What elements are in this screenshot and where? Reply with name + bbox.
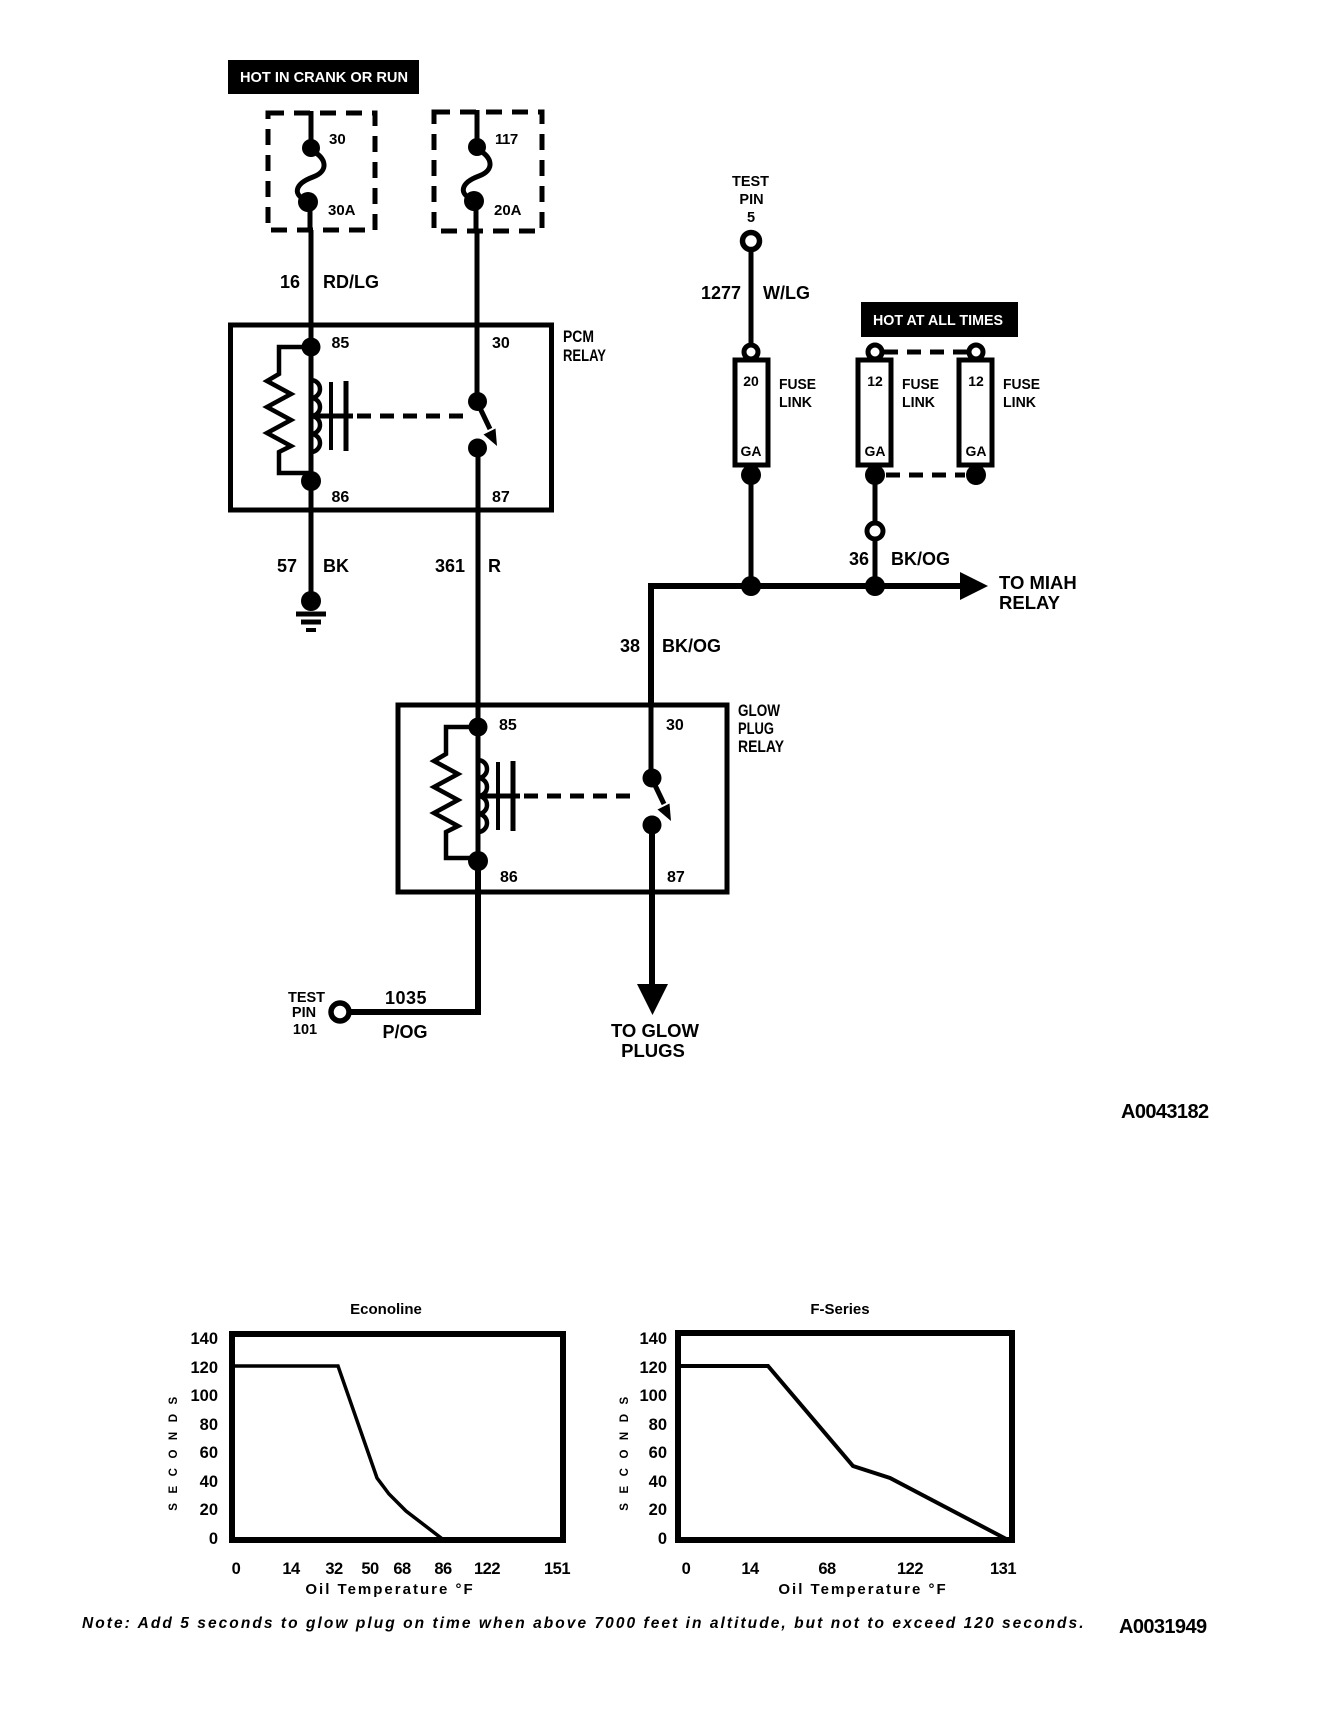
svg-text:101: 101 bbox=[293, 1022, 317, 1038]
svg-text:TEST: TEST bbox=[288, 990, 325, 1006]
svg-text:30A: 30A bbox=[328, 202, 356, 219]
svg-text:1277: 1277 bbox=[701, 283, 741, 303]
fuse link FL1 20GA bbox=[735, 345, 768, 485]
actuator link solid segment (K1) bbox=[311, 414, 353, 419]
svg-text:5: 5 bbox=[747, 210, 755, 226]
svg-text:LINK: LINK bbox=[902, 394, 935, 411]
relay K1 name label PCM RELAY bbox=[563, 327, 607, 365]
svg-text:16: 16 bbox=[280, 272, 300, 292]
svg-text:140: 140 bbox=[190, 1330, 218, 1348]
svg-text:R: R bbox=[488, 556, 501, 576]
svg-text:FUSE: FUSE bbox=[779, 376, 816, 393]
switch blade with arrowhead (K2) bbox=[653, 781, 671, 821]
svg-text:80: 80 bbox=[649, 1416, 667, 1434]
svg-text:40: 40 bbox=[200, 1473, 218, 1491]
svg-text:GA: GA bbox=[865, 443, 886, 459]
svg-text:20: 20 bbox=[200, 1501, 218, 1519]
core plates (K1) bbox=[331, 381, 346, 451]
chart Econoline x-axis labels bbox=[232, 1560, 571, 1578]
svg-text:151: 151 bbox=[544, 1560, 570, 1578]
node TEST PIN 5 terminal bbox=[743, 233, 760, 250]
svg-text:0: 0 bbox=[682, 1560, 691, 1578]
svg-text:RD/LG: RD/LG bbox=[323, 272, 379, 292]
chart F-Series plot frame bbox=[678, 1333, 1012, 1540]
svg-text:30: 30 bbox=[666, 717, 684, 734]
svg-text:85: 85 bbox=[332, 335, 350, 352]
svg-text:PCM: PCM bbox=[563, 327, 594, 346]
label TO MIAH RELAY bbox=[999, 572, 1077, 613]
svg-text:120: 120 bbox=[190, 1359, 218, 1377]
svg-text:W/LG: W/LG bbox=[763, 283, 810, 303]
svg-text:100: 100 bbox=[190, 1387, 218, 1405]
svg-text:57: 57 bbox=[277, 556, 297, 576]
fuse F1 box (dashed) bbox=[268, 113, 375, 230]
fuse F2 box (dashed) bbox=[434, 112, 542, 231]
svg-text:FUSE: FUSE bbox=[1003, 376, 1040, 393]
svg-text:F-Series: F-Series bbox=[810, 1301, 869, 1318]
svg-text:BK/OG: BK/OG bbox=[662, 636, 721, 656]
fuse link FL3 12GA bbox=[959, 345, 992, 485]
wire FL1 bottom to bus bbox=[749, 466, 754, 586]
switch contact node 30 (K2) bbox=[643, 769, 662, 788]
svg-text:140: 140 bbox=[639, 1330, 667, 1348]
svg-text:SECONDS: SECONDS bbox=[619, 1387, 631, 1510]
svg-text:BK/OG: BK/OG bbox=[891, 549, 950, 569]
label 38 BK/OG bbox=[620, 636, 721, 656]
arrowhead TO GLOW PLUGS bbox=[637, 984, 668, 1015]
svg-text:60: 60 bbox=[649, 1444, 667, 1462]
svg-text:TO MIAH: TO MIAH bbox=[999, 572, 1077, 593]
svg-text:LINK: LINK bbox=[779, 394, 812, 411]
relay K2 name label GLOW PLUG RELAY bbox=[738, 701, 785, 756]
svg-text:60: 60 bbox=[200, 1444, 218, 1462]
wire circuit 57 BK (K1 pin 86 to ground) bbox=[309, 481, 314, 598]
chart Econoline y-axis labels bbox=[190, 1330, 218, 1548]
svg-text:80: 80 bbox=[200, 1416, 218, 1434]
svg-text:HOT AT ALL TIMES: HOT AT ALL TIMES bbox=[873, 312, 1003, 329]
chart F-Series x-axis labels bbox=[682, 1560, 1017, 1578]
resistor R1 (K1 coil shunt) bbox=[267, 347, 311, 473]
arrowhead TO MIAH RELAY bbox=[960, 572, 988, 600]
svg-text:A0031949: A0031949 bbox=[1119, 1616, 1207, 1638]
svg-text:PLUGS: PLUGS bbox=[621, 1040, 685, 1061]
svg-text:Oil Temperature °F: Oil Temperature °F bbox=[778, 1581, 947, 1598]
svg-text:86: 86 bbox=[332, 489, 350, 506]
svg-text:BK: BK bbox=[323, 556, 349, 576]
chart Econoline plot frame bbox=[232, 1334, 563, 1540]
header banner HOT AT ALL TIMES bbox=[861, 302, 1018, 337]
svg-text:86: 86 bbox=[500, 869, 518, 886]
label 36 BK/OG bbox=[849, 549, 950, 569]
svg-text:131: 131 bbox=[990, 1560, 1016, 1578]
node TEST PIN 5 label bbox=[732, 174, 769, 226]
resistor R2 (K2 coil shunt) bbox=[434, 727, 478, 858]
svg-text:40: 40 bbox=[649, 1473, 667, 1491]
chart F-Series y-axis labels bbox=[639, 1330, 667, 1548]
junction node (FL1 wire on bus) bbox=[741, 576, 761, 596]
svg-text:SECONDS: SECONDS bbox=[168, 1387, 180, 1510]
switch blade with arrowhead (K1) bbox=[479, 406, 497, 446]
ground symbol bbox=[296, 591, 326, 630]
fuse link FL2 12GA bbox=[858, 345, 891, 485]
svg-text:1035: 1035 bbox=[385, 988, 427, 1008]
svg-text:P/OG: P/OG bbox=[382, 1022, 427, 1042]
wire circuit 361 R (K1 pin 87 to K2 pin 85) bbox=[476, 448, 481, 727]
svg-text:RELAY: RELAY bbox=[999, 592, 1061, 613]
svg-text:68: 68 bbox=[393, 1560, 411, 1578]
label FUSE LINK (FL2) bbox=[902, 376, 939, 411]
svg-text:36: 36 bbox=[849, 549, 869, 569]
wire (K2 pin 30 internal) bbox=[649, 703, 654, 779]
svg-text:RELAY: RELAY bbox=[563, 346, 607, 365]
wire circuit 16 RD/LG (fuse F1 to PCM relay pin 85) bbox=[309, 230, 314, 347]
svg-text:50: 50 bbox=[361, 1560, 379, 1578]
svg-text:0: 0 bbox=[232, 1560, 241, 1578]
chart Econoline curve bbox=[232, 1366, 445, 1541]
node pin 86 (K2) bbox=[468, 851, 488, 871]
svg-text:HOT IN CRANK OR RUN: HOT IN CRANK OR RUN bbox=[240, 69, 408, 86]
label 361 R bbox=[435, 556, 501, 576]
svg-text:117: 117 bbox=[495, 131, 518, 148]
wire circuit 1035 P/OG (K2 pin 85 to test pin 101) bbox=[349, 861, 478, 1012]
svg-text:Note: Add 5 seconds to glow pl: Note: Add 5 seconds to glow plug on time… bbox=[82, 1615, 1086, 1632]
wire circuit 38 BK/OG (bus corner down to K2 pin 30) bbox=[648, 583, 654, 705]
svg-text:20: 20 bbox=[649, 1501, 667, 1519]
wire (fuse F2 to PCM relay pin 30) bbox=[475, 231, 480, 404]
svg-text:87: 87 bbox=[667, 869, 685, 886]
svg-text:12: 12 bbox=[867, 373, 883, 389]
switch contact node 87 (K2) bbox=[643, 816, 662, 835]
svg-text:68: 68 bbox=[818, 1560, 836, 1578]
node pin 85 (K1) bbox=[302, 338, 321, 357]
svg-text:122: 122 bbox=[474, 1560, 500, 1578]
node TEST PIN 101 terminal bbox=[331, 1003, 349, 1021]
svg-text:A0043182: A0043182 bbox=[1121, 1101, 1209, 1123]
svg-text:TEST: TEST bbox=[732, 174, 769, 190]
junction node (FL2 wire on bus) bbox=[865, 576, 885, 596]
fuse F1 element bbox=[297, 111, 324, 232]
label 16 RD/LG bbox=[280, 272, 379, 292]
svg-text:TO GLOW: TO GLOW bbox=[611, 1020, 700, 1041]
svg-text:Oil Temperature °F: Oil Temperature °F bbox=[305, 1581, 474, 1598]
actuator link dashed segment (K2) bbox=[524, 794, 637, 799]
relay K1 PCM RELAY box bbox=[231, 325, 552, 510]
svg-text:PIN: PIN bbox=[739, 192, 763, 208]
svg-text:14: 14 bbox=[741, 1560, 760, 1578]
wire circuit 1277 W/LG (test pin 5 to fuse link FL1) bbox=[749, 250, 754, 347]
svg-text:122: 122 bbox=[897, 1560, 923, 1578]
svg-text:32: 32 bbox=[325, 1560, 343, 1578]
svg-text:LINK: LINK bbox=[1003, 394, 1036, 411]
relay K2 GLOW PLUG RELAY box bbox=[398, 705, 727, 892]
svg-text:30: 30 bbox=[329, 131, 346, 148]
svg-text:FUSE: FUSE bbox=[902, 376, 939, 393]
svg-text:Econoline: Econoline bbox=[350, 1301, 422, 1318]
label 1035 P/OG bbox=[382, 988, 427, 1042]
label TO GLOW PLUGS bbox=[611, 1020, 700, 1061]
svg-text:0: 0 bbox=[209, 1530, 218, 1548]
switch contact node 30 (K1) bbox=[468, 392, 487, 411]
label 57 BK bbox=[277, 556, 349, 576]
svg-text:14: 14 bbox=[282, 1560, 301, 1578]
inductor coil L1 (K1) bbox=[311, 347, 320, 481]
wire circuit 36 BK/OG (FL2 bottom to bus with splice) bbox=[867, 466, 883, 586]
svg-text:20A: 20A bbox=[494, 202, 522, 219]
inductor coil L2 (K2) bbox=[478, 727, 487, 861]
label 1277 W/LG bbox=[701, 283, 810, 303]
svg-text:GA: GA bbox=[741, 443, 762, 459]
svg-text:86: 86 bbox=[434, 1560, 452, 1578]
dashed wire FL2 bottom to FL3 bottom bbox=[886, 473, 965, 478]
svg-text:87: 87 bbox=[492, 489, 510, 506]
node pin 85 (K2) bbox=[469, 718, 488, 737]
chart F-Series curve bbox=[679, 1366, 1010, 1541]
node TEST PIN 101 label bbox=[288, 990, 325, 1038]
label FUSE LINK (FL3) bbox=[1003, 376, 1040, 411]
svg-text:PIN: PIN bbox=[292, 1005, 316, 1021]
bus wire to MIAH relay bbox=[651, 583, 962, 589]
svg-text:100: 100 bbox=[639, 1387, 667, 1405]
svg-text:20: 20 bbox=[743, 373, 759, 389]
svg-text:12: 12 bbox=[968, 373, 984, 389]
svg-text:120: 120 bbox=[639, 1359, 667, 1377]
svg-text:GLOW: GLOW bbox=[738, 701, 781, 720]
switch contact node 87 (K1) bbox=[468, 439, 487, 458]
svg-text:PLUG: PLUG bbox=[738, 719, 774, 738]
svg-text:0: 0 bbox=[658, 1530, 667, 1548]
actuator link solid segment (K2) bbox=[478, 794, 520, 799]
header banner HOT IN CRANK OR RUN bbox=[228, 60, 419, 94]
core plates (K2) bbox=[498, 761, 513, 831]
svg-text:GA: GA bbox=[966, 443, 987, 459]
wire (K2 pin 87 to glow plugs) bbox=[649, 823, 655, 986]
svg-text:30: 30 bbox=[492, 335, 510, 352]
actuator link dashed segment (K1) bbox=[357, 414, 463, 419]
fuse F2 element bbox=[463, 110, 490, 233]
svg-text:RELAY: RELAY bbox=[738, 737, 785, 756]
dashed wire FL2 top to FL3 top bbox=[884, 350, 967, 355]
svg-text:85: 85 bbox=[499, 717, 517, 734]
node pin 86 (K1) bbox=[301, 471, 321, 491]
label FUSE LINK (FL1) bbox=[779, 376, 816, 411]
svg-text:361: 361 bbox=[435, 556, 465, 576]
svg-text:38: 38 bbox=[620, 636, 640, 656]
